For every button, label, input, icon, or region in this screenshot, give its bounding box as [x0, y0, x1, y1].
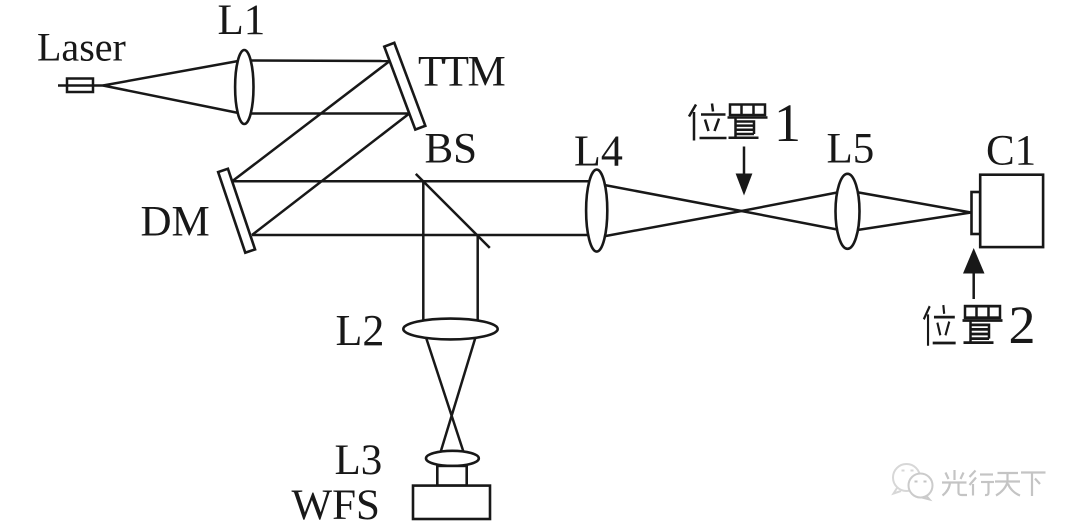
watermark hanzi guang	[942, 470, 967, 496]
svg-text:WFS: WFS	[292, 482, 380, 529]
wire beam L4 to focus position 1 upper	[605, 185, 742, 211]
wire beam TTM to DM upper diagonal	[232, 61, 390, 181]
svg-text:Laser: Laser	[37, 25, 126, 70]
svg-text:L5: L5	[827, 126, 875, 173]
wire beam L5 to C1 upper	[848, 191, 972, 213]
mirror DM plate	[218, 169, 255, 253]
lens L2 ellipse	[403, 319, 497, 340]
wire beam laser to L1 upper	[103, 61, 241, 86]
wire beam TTM to DM lower diagonal	[252, 114, 409, 236]
wire beam L2 to L3 left converging	[425, 335, 464, 453]
arrow for position 1 pointing down	[736, 147, 753, 196]
svg-text:BS: BS	[425, 126, 478, 173]
WFS connector neck box	[437, 466, 466, 486]
wire beam L5 to C1 lower	[848, 213, 972, 232]
wire beam laser to L1 lower	[103, 86, 241, 114]
label position 2 hanzi zhi	[963, 306, 1003, 343]
watermark logo chat bubbles	[893, 464, 933, 500]
beam splitter BS diagonal plate	[416, 174, 490, 248]
svg-text:L2: L2	[336, 306, 385, 355]
watermark hanzi tian	[995, 473, 1020, 496]
label position 1 hanzi wei	[689, 104, 727, 141]
arrow for position 2 pointing up	[963, 248, 985, 299]
svg-text:L3: L3	[335, 437, 383, 484]
wire laser axis line	[58, 84, 103, 87]
WFS sensor body box	[413, 486, 490, 519]
svg-text:2: 2	[1009, 295, 1036, 355]
camera C1 body box	[980, 175, 1043, 247]
wire beam focus position 1 to L5 upper	[742, 191, 848, 212]
wire beam DM to L4 lower	[252, 234, 596, 237]
lens L1 ellipse	[235, 50, 253, 124]
label position 1 hanzi zhi	[728, 105, 768, 138]
wire beam DM to L4 upper	[232, 180, 596, 183]
svg-text:L1: L1	[218, 0, 266, 44]
svg-text:C1: C1	[986, 128, 1036, 175]
lens L5 ellipse	[836, 174, 860, 249]
mirror TTM plate	[384, 43, 425, 130]
camera C1 faceplate	[972, 192, 981, 234]
wire beam L1 to TTM lower	[241, 112, 409, 115]
label position 2 hanzi wei	[924, 305, 956, 346]
wire beam L4 to focus position 1 lower	[605, 211, 742, 236]
lens L3 ellipse	[426, 451, 479, 466]
svg-text:L4: L4	[574, 127, 623, 176]
laser source box	[67, 79, 93, 93]
wire beam BS down right vertical	[476, 235, 479, 329]
wire beam focus position 1 to L5 lower	[742, 211, 848, 232]
svg-text:DM: DM	[141, 199, 210, 246]
watermark hanzi xing	[970, 471, 995, 496]
wire beam L1 to TTM upper	[241, 59, 390, 62]
wire beam BS down left vertical	[422, 181, 425, 329]
svg-text:1: 1	[774, 93, 801, 153]
wire beam L2 to L3 right converging	[440, 335, 476, 453]
watermark hanzi xia	[1021, 473, 1046, 497]
lens L4 ellipse	[586, 170, 607, 252]
svg-text:TTM: TTM	[418, 49, 505, 96]
